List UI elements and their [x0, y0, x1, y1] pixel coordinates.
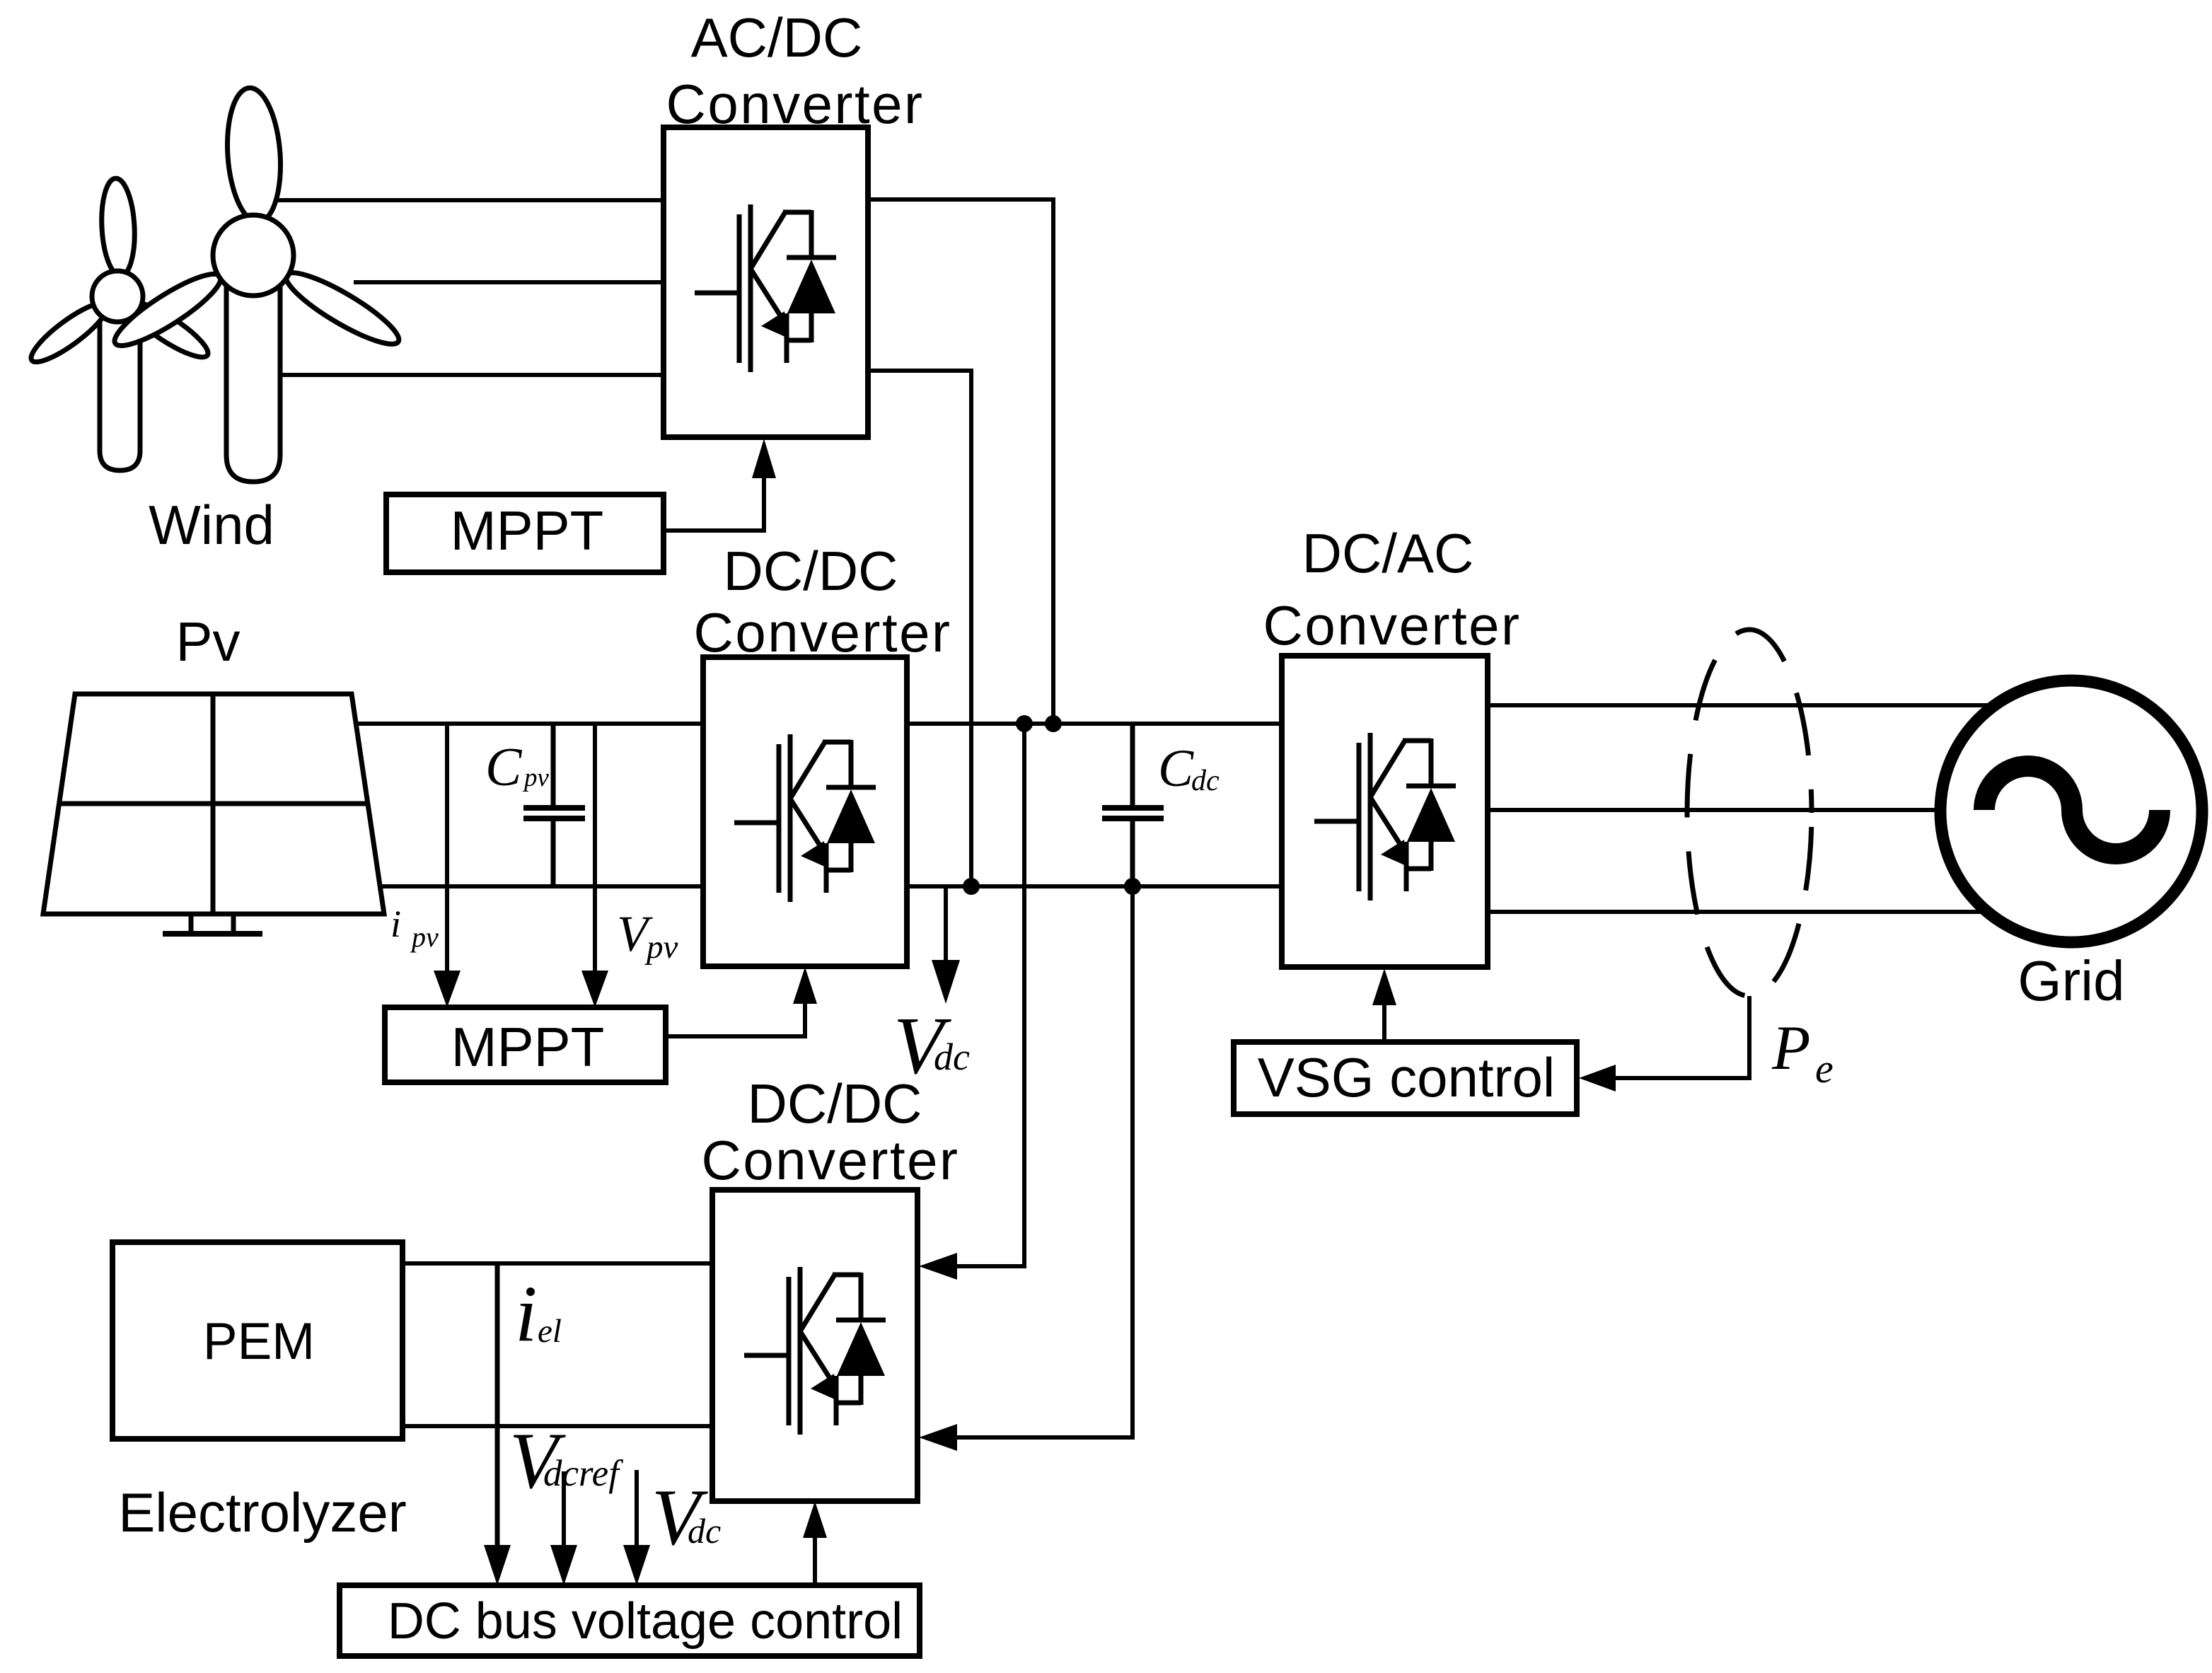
capacitor Cdc top lead	[1130, 724, 1135, 806]
DC bus voltage control box	[340, 1585, 920, 1656]
svg-text:Converter: Converter	[702, 1129, 960, 1191]
svg-text:C: C	[485, 736, 523, 797]
wire wind phase B	[354, 280, 664, 284]
small wind turbine blade left	[25, 295, 114, 370]
svg-text:DC/DC: DC/DC	[748, 1072, 922, 1135]
small wind turbine blade right	[122, 294, 214, 366]
svg-text:Pv: Pv	[175, 610, 240, 673]
MPPT box (PV)	[385, 1007, 666, 1082]
capacitor Cdc bottom lead	[1130, 820, 1135, 886]
wire grid phase B	[1488, 808, 1959, 812]
PV stand base	[163, 931, 262, 937]
wire DC bus feed lower to electrolyzer converter	[957, 886, 1133, 1437]
PEM electrolyzer box	[112, 1242, 403, 1439]
wire VSG control to DC/AC gate	[1382, 1005, 1386, 1042]
svg-text:Converter: Converter	[694, 601, 952, 664]
PV panel vertical divider	[211, 694, 216, 914]
wire PEM top	[403, 1261, 714, 1266]
small wind turbine hub	[92, 271, 143, 322]
wire DC bus top left	[356, 722, 703, 726]
svg-text:DC/AC: DC/AC	[1302, 522, 1474, 584]
svg-text:VSG control: VSG control	[1258, 1046, 1556, 1108]
wire DC bus bottom left	[380, 884, 703, 888]
Vdc sense line (middle)	[944, 886, 948, 963]
wire wind phase A	[272, 198, 664, 202]
svg-text:i: i	[515, 1270, 537, 1358]
small wind turbine blade up	[99, 178, 137, 277]
ipv sense line	[445, 724, 449, 976]
wire DC bus bottom right	[907, 884, 1282, 888]
DC/DC converter box (electrolyzer)	[712, 1190, 917, 1501]
svg-text:P: P	[1771, 1014, 1810, 1083]
wire DC bus feed upper to electrolyzer converter	[957, 724, 1024, 1266]
gate arrow into DC/AC converter	[1372, 968, 1396, 1005]
wire wind phase C	[248, 373, 664, 377]
arrowhead into VSG control	[1579, 1065, 1616, 1092]
svg-text:Electrolyzer: Electrolyzer	[118, 1481, 406, 1544]
capacitor Cdc plates	[1102, 805, 1164, 811]
DC/AC converter box	[1282, 656, 1488, 967]
svg-text:dc: dc	[1191, 765, 1220, 797]
svg-text:dc: dc	[688, 1511, 721, 1551]
wire grid phase C	[1488, 910, 1998, 914]
svg-text:C: C	[1158, 739, 1194, 798]
svg-text:i: i	[390, 903, 401, 945]
svg-text:Grid: Grid	[2017, 949, 2124, 1012]
gate arrow into electrolyzer converter	[803, 1501, 827, 1538]
svg-text:Converter: Converter	[1263, 594, 1522, 656]
iel arrowhead	[484, 1545, 511, 1585]
grid sine wave	[1984, 766, 2160, 854]
svg-text:DC/DC: DC/DC	[724, 540, 898, 602]
gate arrow into AC/DC converter	[752, 439, 776, 478]
wire AC/DC upper output	[868, 199, 1053, 724]
AC/DC converter box	[664, 127, 868, 437]
MPPT box (wind)	[386, 494, 664, 572]
svg-text:pv: pv	[644, 929, 678, 966]
grid symbol circle	[1940, 681, 2202, 942]
junction dot bottom bus 2	[1124, 878, 1141, 895]
wire PEM bottom	[403, 1424, 714, 1428]
measurement ellipse (dashed)	[1687, 630, 1812, 996]
wire control box to electrolyzer converter gate	[813, 1536, 817, 1585]
arrowhead into electrolyzer converter upper	[919, 1253, 957, 1280]
large wind turbine tower	[226, 286, 280, 482]
wire MPPT to DC/DC gate	[666, 999, 805, 1036]
large wind turbine hub	[213, 215, 294, 296]
Vdc arrow line (bottom)	[635, 1470, 639, 1546]
wire Pe feedback	[1616, 996, 1749, 1078]
svg-text:pv: pv	[410, 921, 439, 953]
svg-text:pv: pv	[522, 763, 550, 792]
junction dot top bus 2	[1045, 715, 1062, 732]
PV stand legs	[191, 914, 233, 932]
svg-text:dc: dc	[934, 1036, 970, 1078]
wire AC/DC lower output	[868, 371, 971, 886]
iel sense line	[495, 1263, 500, 1546]
svg-text:Wind: Wind	[149, 494, 274, 556]
wire DC bus top right	[907, 722, 1282, 726]
capacitor Cpv bottom lead	[551, 820, 556, 886]
ipv arrowhead	[434, 971, 461, 1007]
svg-text:DC bus voltage control: DC bus voltage control	[388, 1593, 903, 1650]
junction dot top bus 1	[1016, 715, 1033, 732]
small wind turbine tower	[100, 317, 140, 470]
capacitor Cpv plates	[523, 805, 585, 811]
Vdcref arrowhead	[550, 1545, 577, 1585]
svg-text:MPPT: MPPT	[451, 1016, 605, 1078]
DC/DC converter box	[703, 657, 907, 966]
IGBT symbol (electrolyzer DC/DC converter)	[744, 1267, 886, 1435]
Vpv arrowhead	[581, 971, 608, 1007]
IGBT symbol (AC/DC converter)	[695, 204, 836, 372]
Vdc arrowhead (bottom)	[623, 1545, 650, 1585]
PV panel outline	[43, 694, 384, 914]
svg-text:dcref: dcref	[543, 1453, 623, 1494]
svg-text:el: el	[538, 1313, 562, 1350]
VSG control box	[1234, 1042, 1577, 1114]
Vdcref arrow line	[562, 1471, 566, 1546]
PV panel horizontal divider	[59, 801, 368, 806]
Vdc arrowhead (middle)	[932, 960, 960, 1004]
junction dot bottom bus 1	[963, 878, 980, 895]
svg-text:PEM: PEM	[203, 1313, 315, 1370]
large wind turbine blade up	[223, 86, 284, 224]
Vpv sense line	[593, 724, 597, 976]
large wind turbine blade left	[108, 264, 228, 356]
wire grid phase A	[1488, 703, 1998, 707]
capacitor Cpv top lead	[551, 724, 556, 806]
arrowhead into electrolyzer converter lower	[919, 1424, 957, 1451]
IGBT symbol (DC/DC converter)	[734, 734, 876, 902]
gate arrow into DC/DC converter	[793, 967, 817, 1004]
svg-text:MPPT: MPPT	[451, 499, 604, 562]
wire MPPT to AC/DC gate	[664, 475, 764, 531]
IGBT symbol (DC/AC converter)	[1314, 733, 1456, 901]
svg-text:e: e	[1815, 1046, 1834, 1092]
svg-text:AC/DC: AC/DC	[691, 6, 863, 69]
large wind turbine blade right	[279, 262, 406, 354]
